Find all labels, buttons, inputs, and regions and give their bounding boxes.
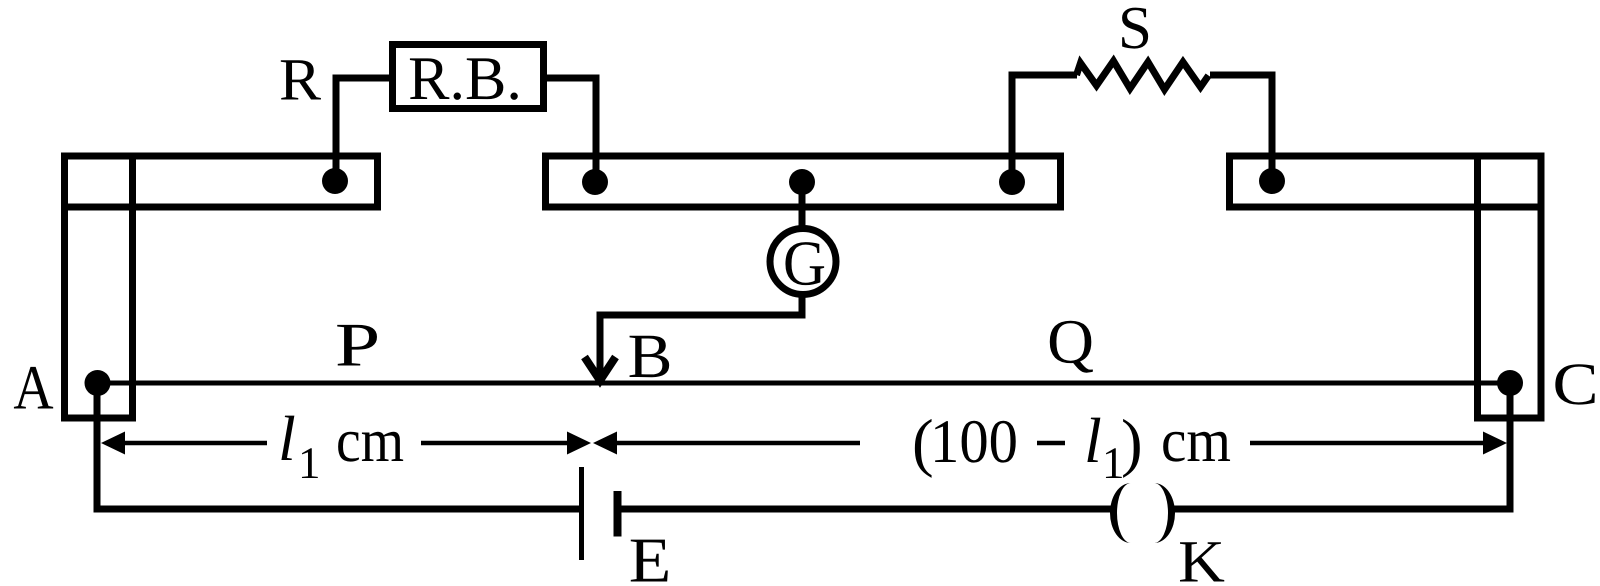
svg-text:l: l <box>278 403 296 474</box>
dimension line (100-l1) left segment <box>615 441 860 446</box>
dimension line (100-l1) right segment <box>1250 441 1485 446</box>
copper strip right vertical bar <box>1478 156 1542 418</box>
dimension label l1 cm <box>278 403 404 488</box>
wire R.B. right lead to middle strip terminal <box>547 78 596 182</box>
wire middle strip to galvanometer <box>799 190 806 230</box>
terminal dot C <box>1497 370 1523 396</box>
wire galvanometer to jockey <box>600 294 802 378</box>
dimension arrow right head (100-l1) <box>1483 432 1507 455</box>
key K left parenthesis <box>1110 483 1131 543</box>
dimension line l1 right segment <box>421 441 569 446</box>
svg-text:cm: cm <box>336 407 404 475</box>
battery E short plate <box>614 491 622 537</box>
dimension line l1 left segment <box>124 441 267 446</box>
terminal dot middle strip left <box>582 169 608 195</box>
copper strip right horizontal bar <box>1230 156 1542 207</box>
dimension arrow left head (100-l1) <box>593 432 617 455</box>
terminal dot middle strip right <box>999 169 1025 195</box>
svg-text:E: E <box>629 525 672 586</box>
terminal dot A <box>85 370 111 396</box>
svg-text:Q: Q <box>1047 307 1094 377</box>
svg-text:l: l <box>1084 405 1102 476</box>
resistor S zigzag <box>1077 61 1209 90</box>
svg-text:S: S <box>1118 0 1152 62</box>
svg-text:A: A <box>13 353 54 423</box>
jockey arrowhead at B <box>585 357 616 381</box>
svg-text:): ) <box>1121 407 1143 479</box>
bridge wire A to C <box>97 381 1510 386</box>
svg-text:C: C <box>1552 351 1598 417</box>
terminal dot right strip <box>1259 168 1285 194</box>
terminal dot left strip <box>322 168 348 194</box>
wire battery to key <box>621 506 1111 513</box>
svg-text:R: R <box>279 47 321 113</box>
svg-text:R.B.: R.B. <box>408 45 522 113</box>
svg-text:K: K <box>1178 529 1225 586</box>
copper strip left vertical bar <box>65 156 133 418</box>
wire A down to battery <box>97 383 579 509</box>
resistance box R.B. <box>393 45 544 109</box>
wire S left lead <box>1012 75 1077 182</box>
copper strip middle <box>546 156 1061 207</box>
wire key to C <box>1174 383 1510 509</box>
svg-text:100: 100 <box>930 408 1018 476</box>
battery E long plate <box>579 467 584 560</box>
svg-text:1: 1 <box>298 438 321 488</box>
terminal dot middle strip center <box>789 169 815 195</box>
wire S right lead <box>1210 75 1272 181</box>
dimension label (100-l1) cm <box>912 405 1231 488</box>
key K right parenthesis <box>1154 483 1175 543</box>
svg-text:G: G <box>783 228 826 299</box>
galvanometer G circle <box>770 229 836 295</box>
svg-text:cm: cm <box>1161 407 1231 475</box>
dimension arrow left head (l1) <box>101 432 125 455</box>
wire R.B. left lead to strip terminal <box>336 78 389 181</box>
svg-text:P: P <box>335 312 380 380</box>
copper strip left horizontal bar <box>65 156 378 207</box>
dimension arrow right head (l1) <box>567 432 591 455</box>
